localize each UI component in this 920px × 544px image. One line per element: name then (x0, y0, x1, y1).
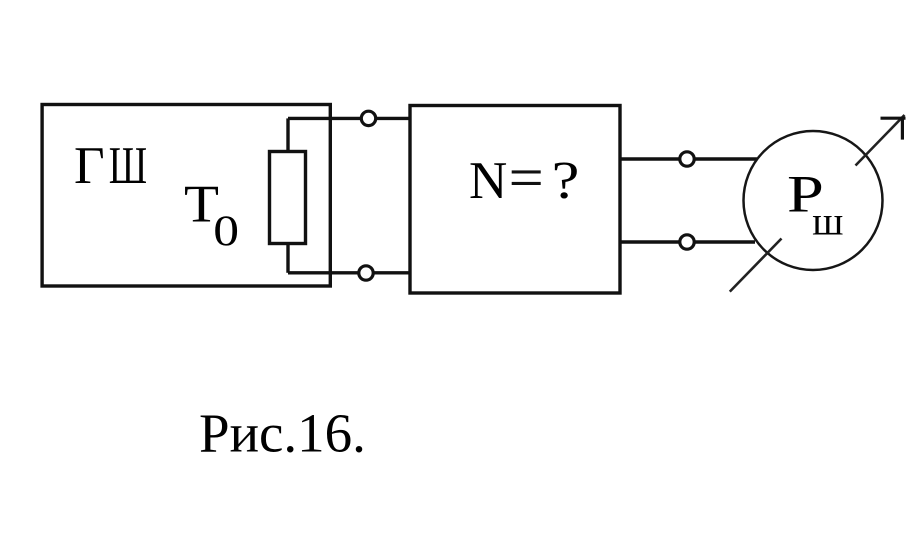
svg-text:?: ? (552, 150, 580, 209)
svg-text:ш: ш (812, 199, 843, 244)
svg-text:Г: Г (74, 137, 105, 195)
svg-text:Рис.16.: Рис.16. (199, 402, 366, 463)
svg-text:0: 0 (213, 208, 239, 255)
svg-text:N: N (469, 152, 507, 210)
svg-text:Ш: Ш (109, 136, 147, 195)
